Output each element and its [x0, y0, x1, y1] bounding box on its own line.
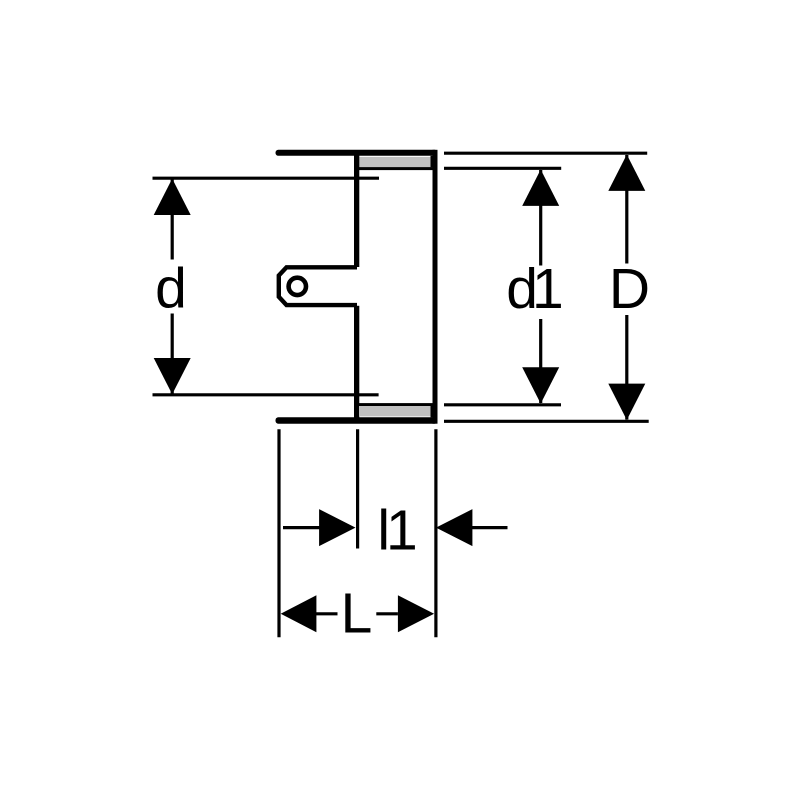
dimension d1 bottom extension line: [444, 403, 561, 406]
dimension d bottom extension line: [153, 393, 379, 396]
dimension D bottom extension line: [444, 420, 649, 423]
left vertical extension line (L): [277, 429, 280, 637]
dimension L right arrowhead: [398, 595, 434, 632]
dimension d line upper: [171, 179, 174, 260]
svg-text:D: D: [609, 257, 650, 321]
bottom socket inner shoulder line: [359, 403, 433, 406]
left wall lower segment: [354, 306, 359, 418]
dimension d arrowhead up: [154, 179, 191, 215]
top seal right black border: [431, 156, 438, 168]
dimension D line lower: [625, 315, 628, 420]
dimension L left arrowhead: [281, 595, 317, 632]
bottom flange bar: [276, 417, 438, 423]
dimension d top extension line: [153, 177, 380, 180]
right wall: [433, 150, 438, 424]
svg-text:d1: d1: [506, 257, 561, 321]
dimension d1 top extension line: [444, 167, 561, 170]
dimension D line upper: [625, 155, 628, 264]
svg-text:l1: l1: [377, 499, 415, 563]
svg-text:L: L: [341, 582, 373, 646]
middle vertical extension line (l1): [356, 429, 359, 548]
dimension d arrowhead down: [154, 358, 191, 394]
dimension l1 right arrowhead: [436, 509, 472, 546]
bottom seal right black border: [431, 406, 438, 418]
bottom seal ring (gray): [359, 406, 431, 416]
dimension d1 arrowhead down: [522, 367, 559, 403]
dimension l1 right tail: [472, 526, 508, 529]
dimension l1 left tail: [283, 526, 320, 529]
dimension D arrowhead up: [608, 155, 645, 191]
dimension L right tail: [376, 612, 398, 615]
dimension L left tail: [316, 612, 338, 615]
dimension l1 left arrowhead: [319, 509, 355, 546]
dimension d1 line lower: [539, 319, 542, 403]
top socket inner shoulder line: [359, 167, 433, 170]
left wall upper segment: [354, 155, 359, 267]
dimension d1 arrowhead up: [522, 170, 559, 206]
dimension D top extension line: [444, 152, 647, 155]
svg-text:d: d: [155, 257, 187, 321]
right vertical extension line (L/l1): [434, 429, 437, 637]
top flange bar: [276, 150, 438, 156]
tab hole: [289, 278, 306, 295]
dimension d line lower: [171, 314, 174, 394]
retaining tab outline: [279, 267, 357, 305]
dimension d1 line upper: [539, 170, 542, 266]
top seal ring (gray): [359, 157, 431, 167]
dimension D arrowhead down: [608, 384, 645, 420]
